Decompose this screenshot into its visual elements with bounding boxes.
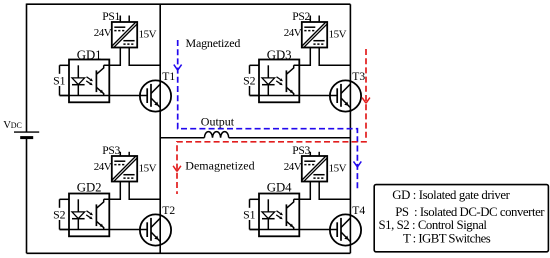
GD2 light arrows bbox=[86, 211, 93, 220]
svg-text:15V: 15V bbox=[139, 28, 157, 40]
GD2 LED bbox=[72, 199, 85, 229]
svg-text:T : IGBT Switches: T : IGBT Switches bbox=[403, 232, 491, 246]
wire left rail lower bbox=[26, 138, 28, 254]
wire right bridge leg bbox=[349, 4, 351, 253]
wire output left segment bbox=[160, 137, 204, 139]
svg-text:24V: 24V bbox=[284, 27, 302, 39]
svg-text:T4: T4 bbox=[352, 204, 365, 217]
GD1 light arrows bbox=[86, 77, 93, 86]
wire bottom bus bbox=[27, 252, 351, 254]
gate driver GD3 box bbox=[259, 60, 299, 103]
GD4 LED bbox=[262, 199, 275, 229]
label VDC bbox=[3, 119, 22, 131]
svg-text:S2: S2 bbox=[243, 73, 256, 87]
demagnetized current path (red dashed) bbox=[177, 49, 366, 194]
GD1 LED bbox=[72, 65, 85, 95]
wire left bridge leg bbox=[159, 4, 161, 253]
gate driver GD1 box bbox=[69, 60, 109, 103]
svg-text:DC: DC bbox=[11, 121, 22, 130]
svg-text:PS3: PS3 bbox=[102, 144, 120, 157]
svg-text:S2: S2 bbox=[53, 207, 66, 221]
DC-DC converter PS3 bbox=[112, 156, 138, 182]
svg-text:15V: 15V bbox=[139, 162, 157, 174]
control signal S2 input bracket bbox=[60, 199, 70, 229]
battery VDC bbox=[14, 132, 39, 138]
wire PS2 15V- to collector rail bbox=[319, 48, 350, 66]
PS1 24V input pins bbox=[120, 16, 129, 23]
svg-text:S1: S1 bbox=[243, 207, 256, 221]
magnetized arrow 1 bbox=[174, 65, 182, 71]
wire PS3 15V+ to GD2 supply bbox=[104, 182, 121, 200]
gate driver GD4 box bbox=[259, 194, 299, 237]
wire output right segment bbox=[229, 137, 351, 139]
wire left rail upper bbox=[26, 4, 28, 133]
GD4 phototransistor bbox=[286, 199, 293, 229]
svg-text:24V: 24V bbox=[94, 161, 112, 173]
wire PS3 15V- to collector rail bbox=[319, 182, 350, 200]
magnetized current path (blue dashed) bbox=[178, 40, 358, 189]
PS3 24V input pins bbox=[310, 152, 319, 156]
svg-text:PS1: PS1 bbox=[102, 10, 120, 23]
label S1 bbox=[53, 74, 67, 86]
inductor (output) bbox=[204, 132, 228, 138]
svg-text:15V: 15V bbox=[329, 162, 347, 174]
label S2 bbox=[53, 208, 67, 220]
svg-text:T1: T1 bbox=[162, 70, 175, 83]
IGBT T2 bbox=[140, 214, 171, 245]
demagnetized arrow 1 bbox=[362, 98, 370, 104]
wire top bus bbox=[27, 3, 351, 5]
PS3 24V input pins bbox=[120, 152, 129, 156]
DC-DC converter PS1 bbox=[112, 22, 138, 48]
control signal S1 input bracket bbox=[60, 65, 70, 95]
svg-text:S1, S2 : Control Signal: S1, S2 : Control Signal bbox=[379, 218, 488, 232]
label S1 bbox=[243, 208, 257, 220]
svg-text:GD4: GD4 bbox=[267, 181, 292, 195]
GD3 LED bbox=[262, 65, 275, 95]
IGBT T4 bbox=[330, 214, 361, 245]
svg-text:T3: T3 bbox=[352, 70, 365, 83]
svg-text:PS : Isolated DC-DC converter: PS : Isolated DC-DC converter bbox=[395, 205, 545, 219]
svg-text:GD1: GD1 bbox=[77, 48, 102, 62]
GD3 phototransistor bbox=[286, 65, 293, 95]
svg-text:T2: T2 bbox=[162, 204, 175, 217]
wire GD1 output to T1 gate bbox=[60, 95, 148, 97]
GD1 phototransistor bbox=[96, 65, 103, 95]
DC-DC converter PS2 bbox=[302, 22, 328, 48]
svg-text:15V: 15V bbox=[329, 28, 347, 40]
svg-text:Magnetized: Magnetized bbox=[186, 36, 241, 50]
wire PS1 15V- to collector rail bbox=[129, 48, 160, 66]
legend box bbox=[374, 185, 548, 252]
GD4 light arrows bbox=[276, 211, 283, 220]
wire PS1 15V+ to GD1 supply bbox=[104, 48, 121, 66]
DC-DC converter PS3 bbox=[302, 156, 328, 182]
svg-text:24V: 24V bbox=[284, 161, 302, 173]
PS2 24V input pins bbox=[310, 16, 319, 23]
svg-text:Output: Output bbox=[201, 115, 235, 129]
svg-text:24V: 24V bbox=[94, 27, 112, 39]
wire PS3 15V+ to GD4 supply bbox=[294, 182, 311, 200]
wire GD2 output to T2 gate bbox=[60, 229, 148, 231]
svg-text:GD2: GD2 bbox=[77, 181, 102, 195]
magnetized arrow 2 bbox=[354, 161, 362, 167]
svg-text:GD : Isolated gate driver: GD : Isolated gate driver bbox=[392, 188, 510, 202]
wire PS2 15V+ to GD3 supply bbox=[294, 48, 311, 66]
svg-text:S1: S1 bbox=[53, 73, 66, 87]
IGBT T1 bbox=[140, 80, 171, 111]
wire GD3 output to T3 gate bbox=[250, 95, 338, 97]
wire GD4 output to T4 gate bbox=[250, 229, 338, 231]
demagnetized arrow 2 bbox=[173, 166, 181, 172]
GD3 light arrows bbox=[276, 77, 283, 86]
svg-text:PS2: PS2 bbox=[292, 10, 310, 23]
svg-text:Demagnetized: Demagnetized bbox=[185, 158, 254, 172]
wire PS3 15V- to collector rail bbox=[129, 182, 160, 200]
label S2 bbox=[243, 74, 257, 86]
svg-text:GD3: GD3 bbox=[267, 48, 292, 62]
control signal S2 input bracket bbox=[250, 65, 260, 95]
control signal S1 input bracket bbox=[250, 199, 260, 229]
GD2 phototransistor bbox=[96, 199, 103, 229]
IGBT T3 bbox=[330, 80, 361, 111]
gate driver GD2 box bbox=[69, 194, 109, 237]
svg-text:PS3: PS3 bbox=[292, 144, 310, 157]
